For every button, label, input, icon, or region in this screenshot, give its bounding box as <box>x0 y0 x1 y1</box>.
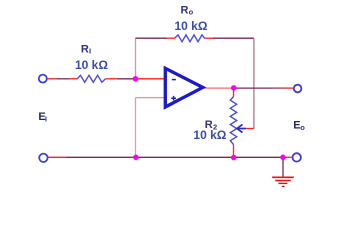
svg-text:I: I <box>45 115 47 124</box>
svg-text:10 kΩ: 10 kΩ <box>175 19 208 33</box>
svg-text:R: R <box>81 43 89 55</box>
svg-text:10 kΩ: 10 kΩ <box>75 58 108 72</box>
svg-text:I: I <box>89 47 91 56</box>
svg-text:10 kΩ: 10 kΩ <box>193 128 226 142</box>
svg-text:R: R <box>181 5 189 17</box>
svg-text:o: o <box>189 8 194 17</box>
svg-text:o: o <box>300 123 305 132</box>
